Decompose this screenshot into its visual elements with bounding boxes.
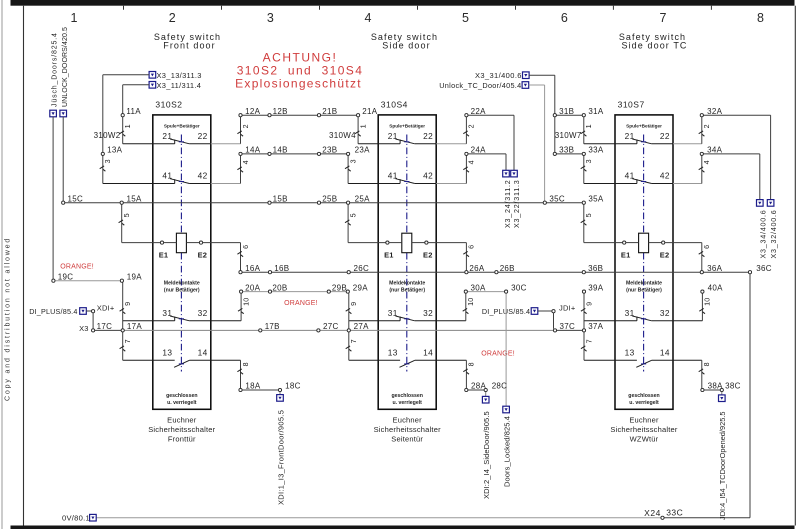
svg-text:16A: 16A [245,264,260,273]
svg-text:32: 32 [660,308,670,318]
svg-text:30C: 30C [511,283,527,292]
svg-text:42: 42 [660,171,670,181]
svg-text:23B: 23B [322,146,337,155]
svg-text:Jüsch_Doors/825.4: Jüsch_Doors/825.4 [52,32,59,107]
svg-text:19C: 19C [58,272,74,281]
svg-text:ORANGE!: ORANGE! [284,300,318,307]
svg-text:JDI:4_I54_TCDoorOpened/925.5: JDI:4_I54_TCDoorOpened/925.5 [718,412,727,520]
svg-text:13A: 13A [107,146,122,155]
svg-text:14: 14 [660,348,670,358]
svg-text:2: 2 [241,124,250,128]
svg-text:29A: 29A [353,283,368,292]
svg-text:u. verriegelt: u. verriegelt [392,400,422,406]
svg-text:31B: 31B [559,107,574,116]
svg-text:32: 32 [198,308,208,318]
svg-text:20A: 20A [245,283,260,292]
svg-text:u. verriegelt: u. verriegelt [167,400,197,406]
svg-text:Meldekontakte: Meldekontakte [164,281,200,287]
svg-text:5: 5 [584,213,593,217]
svg-text:X3_32/400.6: X3_32/400.6 [769,209,778,258]
svg-text:12A: 12A [245,107,260,116]
svg-text:11A: 11A [126,107,141,116]
svg-text:X3_34/400.6: X3_34/400.6 [759,209,768,258]
svg-text:14A: 14A [245,146,260,155]
svg-text:3: 3 [348,159,357,163]
svg-text:17B: 17B [265,322,280,331]
svg-text:Spule+Betätiger: Spule+Betätiger [626,124,662,129]
svg-text:42: 42 [423,171,433,181]
svg-text:22: 22 [198,131,208,141]
svg-text:26B: 26B [500,264,515,273]
svg-text:21B: 21B [322,107,337,116]
svg-text:10: 10 [466,297,475,305]
svg-text:(nur Betätiger): (nur Betätiger) [626,287,662,293]
svg-text:E2: E2 [198,250,208,259]
svg-text:31A: 31A [588,107,603,116]
svg-text:19A: 19A [127,272,142,281]
svg-text:Fronttür: Fronttür [168,434,196,443]
svg-text:E1: E1 [159,250,169,259]
svg-text:XDI+: XDI+ [97,303,115,312]
svg-text:9: 9 [584,302,593,306]
svg-text:37C: 37C [560,322,576,331]
svg-text:20B: 20B [272,283,287,292]
svg-text:(nur Betätiger): (nur Betätiger) [164,287,200,293]
svg-text:E2: E2 [423,250,433,259]
svg-text:310S2: 310S2 [155,99,182,109]
svg-text:Euchner: Euchner [167,415,197,424]
svg-text:X3_13/311.3: X3_13/311.3 [157,71,202,80]
svg-text:40A: 40A [708,283,723,292]
svg-text:Euchner: Euchner [393,415,423,424]
svg-text:Seitentür: Seitentür [391,434,423,443]
svg-text:17C: 17C [97,322,113,331]
svg-text:E1: E1 [384,250,394,259]
svg-text:u. verriegelt: u. verriegelt [629,400,659,406]
svg-text:0V/80.1: 0V/80.1 [62,513,90,522]
svg-text:3: 3 [267,11,274,25]
svg-text:UNLOCK_DOORS/420.5: UNLOCK_DOORS/420.5 [62,27,69,107]
svg-text:26A: 26A [469,264,484,273]
svg-text:25A: 25A [355,194,370,203]
svg-text:310S7: 310S7 [618,99,645,109]
svg-text:27C: 27C [323,322,339,331]
svg-text:22A: 22A [471,107,486,116]
svg-text:1: 1 [123,124,132,128]
svg-text:310W2: 310W2 [94,131,121,140]
svg-text:36B: 36B [588,264,603,273]
svg-text:X3_22/311.3: X3_22/311.3 [512,180,521,228]
svg-text:Meldekontakte: Meldekontakte [389,281,425,287]
svg-text:WZWtür: WZWtür [630,434,659,443]
svg-text:JDI+: JDI+ [559,303,576,312]
svg-text:1: 1 [358,124,367,128]
svg-text:36C: 36C [756,264,772,273]
svg-text:35C: 35C [549,194,565,203]
svg-text:5: 5 [348,213,357,217]
svg-text:3: 3 [103,159,112,163]
svg-text:XDI:2_I4_SideDoor/905.5: XDI:2_I4_SideDoor/905.5 [482,411,491,499]
svg-text:26C: 26C [354,264,370,273]
svg-text:27A: 27A [354,322,369,331]
svg-text:35A: 35A [588,194,603,203]
svg-text:12B: 12B [273,107,288,116]
svg-text:E1: E1 [621,250,631,259]
svg-text:37A: 37A [588,322,603,331]
svg-text:42: 42 [198,171,208,181]
svg-text:geschlossen: geschlossen [166,393,197,399]
svg-text:4: 4 [467,160,476,164]
svg-text:7: 7 [660,11,667,25]
svg-text:ORANGE!: ORANGE! [60,264,94,271]
svg-text:10: 10 [703,297,712,305]
svg-text:8: 8 [702,362,711,366]
svg-text:Unlock_TC_Door/405.4: Unlock_TC_Door/405.4 [439,81,521,90]
svg-text:310S4: 310S4 [381,99,408,109]
svg-text:X3_24/311.2: X3_24/311.2 [503,180,512,228]
svg-text:(nur Betätiger): (nur Betätiger) [389,287,425,293]
svg-text:33B: 33B [559,146,574,155]
svg-text:21A: 21A [362,107,377,116]
svg-text:34A: 34A [707,146,722,155]
svg-text:14B: 14B [273,146,288,155]
svg-text:3: 3 [584,159,593,163]
svg-text:ORANGE!: ORANGE! [481,351,515,358]
svg-text:23A: 23A [355,146,370,155]
svg-text:6: 6 [241,245,250,249]
svg-text:5: 5 [122,213,131,217]
svg-text:1: 1 [71,11,78,25]
svg-text:7: 7 [584,339,593,343]
svg-text:29B: 29B [332,283,347,292]
svg-text:16B: 16B [274,264,289,273]
svg-text:1: 1 [584,124,593,128]
svg-text:Doors_Locked/825.4: Doors_Locked/825.4 [502,416,511,487]
svg-text:Side door TC: Side door TC [621,41,687,51]
svg-text:15A: 15A [127,194,142,203]
svg-text:Copy and distribution not allo: Copy and distribution not allowed [5,237,12,401]
svg-text:XDI:1_I3_FrontDoor/905.5: XDI:1_I3_FrontDoor/905.5 [276,410,285,505]
svg-text:10: 10 [241,297,250,305]
svg-text:Sicherheitsschalter: Sicherheitsschalter [148,425,215,434]
svg-text:9: 9 [349,302,358,306]
svg-text:39A: 39A [588,283,603,292]
svg-text:32: 32 [423,308,433,318]
svg-text:4: 4 [702,160,711,164]
svg-text:2: 2 [467,124,476,128]
svg-text:Side door: Side door [382,41,430,51]
svg-text:17A: 17A [127,322,142,331]
svg-text:30A: 30A [471,283,486,292]
svg-text:28C: 28C [492,382,508,391]
svg-text:2: 2 [702,124,711,128]
svg-text:8: 8 [757,11,764,25]
svg-text:DI_PLUS/85.4: DI_PLUS/85.4 [29,307,77,316]
svg-text:6: 6 [467,245,476,249]
svg-text:geschlossen: geschlossen [628,393,659,399]
svg-text:geschlossen: geschlossen [391,393,422,399]
svg-text:2: 2 [169,11,176,25]
svg-text:Euchner: Euchner [629,415,659,424]
svg-text:22: 22 [660,131,670,141]
svg-text:4: 4 [365,11,372,25]
svg-text:Sicherheitsschalter: Sicherheitsschalter [610,425,677,434]
svg-text:36A: 36A [707,264,722,273]
svg-text:13: 13 [625,348,635,358]
svg-text:8: 8 [467,362,476,366]
svg-text:Front door: Front door [163,41,216,51]
svg-text:15C: 15C [68,194,84,203]
svg-text:Sicherheitsschalter: Sicherheitsschalter [374,425,441,434]
svg-text:15B: 15B [273,194,288,203]
svg-text:33C: 33C [666,507,683,517]
svg-text:25B: 25B [322,194,337,203]
svg-text:38C: 38C [725,382,741,391]
svg-text:18C: 18C [285,382,301,391]
svg-text:Explosiongeschützt: Explosiongeschützt [235,77,362,91]
svg-text:32A: 32A [707,107,722,116]
svg-text:5: 5 [462,11,469,25]
svg-text:4: 4 [241,160,250,164]
svg-text:Meldekontakte: Meldekontakte [626,281,662,287]
svg-text:310S2 und 310S4: 310S2 und 310S4 [237,63,364,77]
svg-text:X3: X3 [79,324,89,333]
svg-text:7: 7 [123,339,132,343]
svg-text:14: 14 [198,348,208,358]
svg-text:X24: X24 [644,508,661,518]
svg-text:18A: 18A [245,382,260,391]
svg-text:7: 7 [349,339,358,343]
svg-text:Spule+Betätiger: Spule+Betätiger [164,124,200,129]
svg-text:13: 13 [388,348,398,358]
svg-text:E2: E2 [660,250,670,259]
svg-text:6: 6 [561,11,568,25]
svg-text:22: 22 [423,131,433,141]
svg-text:X3_31/400.6: X3_31/400.6 [475,71,522,80]
svg-text:310W4: 310W4 [329,131,356,140]
svg-text:6: 6 [702,245,711,249]
svg-text:33A: 33A [588,146,603,155]
svg-text:9: 9 [123,302,132,306]
svg-text:8: 8 [241,362,250,366]
svg-text:Spule+Betätiger: Spule+Betätiger [389,124,425,129]
svg-text:14: 14 [423,348,433,358]
svg-text:X3_11/311.4: X3_11/311.4 [157,81,202,90]
svg-text:310W7: 310W7 [555,131,582,140]
svg-text:24A: 24A [471,146,486,155]
svg-text:13: 13 [162,348,172,358]
